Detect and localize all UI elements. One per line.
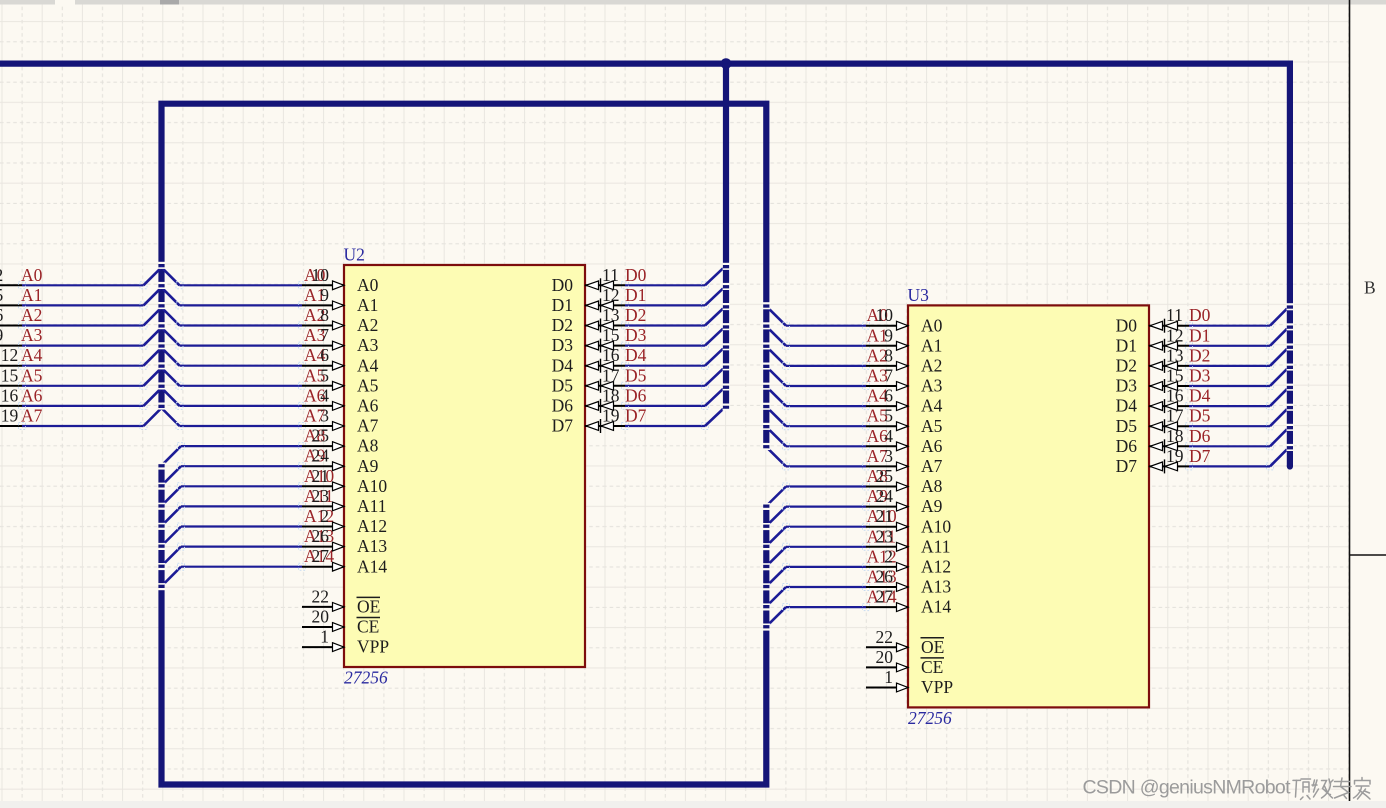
wire net D2: U2 pin to bus entry bbox=[622, 322, 709, 329]
bus entry net A2 at right address bus bbox=[768, 348, 786, 366]
svg-text:17: 17 bbox=[1166, 406, 1184, 426]
U3 pin 27 A14 bbox=[866, 587, 951, 617]
svg-text:17: 17 bbox=[602, 365, 620, 385]
svg-text:D0: D0 bbox=[1189, 305, 1211, 325]
bus entry net A1 at right address bus bbox=[768, 328, 786, 346]
svg-text:A1: A1 bbox=[921, 335, 942, 355]
wire net D3: U2 pin to bus entry bbox=[622, 342, 709, 349]
svg-text:20: 20 bbox=[312, 607, 330, 627]
bus entry net D2 at U2 data bus bbox=[705, 309, 723, 326]
bus entry net A7 at right address bus bbox=[768, 448, 786, 466]
wire net A3: stub to bus entry bbox=[19, 342, 148, 349]
svg-text:A11: A11 bbox=[357, 496, 387, 516]
svg-text:A1: A1 bbox=[21, 285, 42, 305]
svg-text:23: 23 bbox=[312, 486, 330, 506]
bus entry net A14 at left address bus bbox=[163, 567, 181, 585]
svg-text:18: 18 bbox=[602, 385, 620, 405]
svg-text:7: 7 bbox=[884, 366, 893, 386]
svg-text:1: 1 bbox=[320, 627, 329, 647]
bus: top horizontal data bus with right vertical drop bbox=[0, 64, 1290, 467]
wire net A3: bus to U3 pin bbox=[783, 383, 870, 390]
svg-text:A0: A0 bbox=[357, 275, 379, 295]
svg-text:A10: A10 bbox=[921, 516, 951, 536]
svg-text:15: 15 bbox=[1166, 366, 1184, 386]
U3 pin 11 D0 bbox=[1116, 305, 1189, 335]
svg-text:16: 16 bbox=[1, 385, 19, 405]
junction: data bus junction at top bus bbox=[721, 58, 732, 69]
U3 pin 20 CE bbox=[866, 647, 944, 677]
bus entry net A13 at left address bus bbox=[163, 547, 181, 565]
svg-text:5: 5 bbox=[884, 406, 893, 426]
svg-text:26: 26 bbox=[876, 567, 894, 587]
svg-text:D5: D5 bbox=[625, 365, 647, 385]
svg-text:5: 5 bbox=[0, 285, 3, 305]
svg-text:D5: D5 bbox=[1116, 416, 1138, 436]
U2 pin 1 VPP bbox=[302, 627, 389, 657]
bus entry net D3 at U2 data bus bbox=[705, 329, 723, 346]
svg-text:A13: A13 bbox=[357, 536, 387, 556]
bus entry net A3 at right address bus bbox=[768, 368, 786, 386]
bus entry net A0 at right address bus bbox=[768, 308, 786, 326]
wire net D4: U2 pin to bus entry bbox=[622, 362, 709, 369]
U3 pin 19 D7 bbox=[1116, 446, 1189, 476]
svg-text:D1: D1 bbox=[552, 295, 573, 315]
svg-text:D6: D6 bbox=[1189, 426, 1211, 446]
wire net D1: U2 pin to bus entry bbox=[622, 302, 709, 309]
svg-text:5: 5 bbox=[320, 365, 329, 385]
svg-text:A7: A7 bbox=[357, 416, 379, 436]
U2 pin 24 A9 bbox=[302, 446, 379, 476]
svg-text:19: 19 bbox=[1, 406, 19, 426]
svg-text:D2: D2 bbox=[552, 315, 573, 335]
bus entry chevron net A5 at left address bus bbox=[144, 368, 180, 386]
svg-text:A14: A14 bbox=[357, 556, 387, 576]
svg-text:VPP: VPP bbox=[357, 637, 389, 657]
svg-text:D5: D5 bbox=[1189, 406, 1211, 426]
bus entry net D1 at U2 data bus bbox=[705, 288, 723, 305]
U3 pin 4 A6 bbox=[866, 426, 943, 456]
U3 pin 26 A13 bbox=[866, 567, 951, 597]
svg-text:CSDN @geniusNMRobot: CSDN @geniusNMRobot bbox=[1083, 777, 1292, 799]
U2 pin 25 A8 bbox=[302, 426, 379, 456]
bus entry chevron net A4 at left address bus bbox=[144, 348, 180, 366]
U2 pin 27 A14 bbox=[302, 546, 387, 576]
wire net A6: stub to bus entry bbox=[19, 402, 148, 409]
svg-text:A6: A6 bbox=[921, 436, 943, 456]
IC U3 27256 EPROM body bbox=[908, 305, 1149, 707]
IC U2 27256 EPROM body bbox=[344, 265, 585, 667]
svg-text:D3: D3 bbox=[1189, 366, 1211, 386]
bus entry net D4 at U2 data bus bbox=[705, 349, 723, 366]
U3 pin 24 A9 bbox=[866, 486, 943, 516]
svg-text:27: 27 bbox=[876, 587, 894, 607]
wire net A5: bus to U2 pin bbox=[176, 382, 306, 389]
svg-text:CE: CE bbox=[921, 657, 943, 677]
pin 5 of off-sheet IC, net A1 bbox=[0, 285, 22, 306]
svg-text:12: 12 bbox=[1166, 325, 1184, 345]
wire net A4: stub to bus entry bbox=[19, 362, 148, 369]
svg-text:A9: A9 bbox=[357, 456, 379, 476]
bus entry net A9 at left address bus bbox=[163, 466, 181, 484]
bus entry net D7 at U2 data bus bbox=[705, 409, 723, 426]
bus entry chevron net A2 at left address bus bbox=[144, 308, 180, 326]
wire net A11: bus to U2 pin bbox=[178, 503, 306, 510]
wire net A7: bus to U3 pin bbox=[783, 463, 870, 470]
svg-text:VPP: VPP bbox=[921, 677, 953, 697]
svg-text:8: 8 bbox=[884, 345, 893, 365]
U3 pin 18 D6 bbox=[1116, 426, 1189, 456]
U3 pin 8 A2 bbox=[866, 345, 942, 375]
svg-text:D4: D4 bbox=[552, 355, 574, 375]
wire net D0: U3 pin to bus entry bbox=[1186, 322, 1274, 329]
U3 pin 15 D3 bbox=[1116, 366, 1189, 396]
wire net A13: bus to U2 pin bbox=[178, 543, 306, 550]
wire net A8: bus to U2 pin bbox=[178, 443, 306, 450]
U3 pin 16 D4 bbox=[1116, 386, 1189, 416]
wire net A6: bus to U2 pin bbox=[176, 402, 306, 409]
wire net A6: bus to U3 pin bbox=[783, 443, 870, 450]
U2 pin 21 A10 bbox=[302, 466, 387, 496]
U3 pin 5 A5 bbox=[866, 406, 943, 436]
wire net D6: U3 pin to bus entry bbox=[1186, 443, 1274, 450]
svg-text:D4: D4 bbox=[1116, 396, 1138, 416]
svg-text:2: 2 bbox=[0, 265, 3, 285]
svg-text:21: 21 bbox=[876, 506, 894, 526]
svg-text:19: 19 bbox=[1166, 446, 1184, 466]
svg-text:A7: A7 bbox=[21, 406, 43, 426]
wire net D7: U3 pin to bus entry bbox=[1186, 463, 1274, 470]
svg-text:A4: A4 bbox=[21, 345, 43, 365]
svg-text:22: 22 bbox=[876, 627, 894, 647]
svg-text:10: 10 bbox=[876, 305, 894, 325]
wire net A3: bus to U2 pin bbox=[176, 342, 306, 349]
bus entry net A14 at right address bus bbox=[768, 607, 786, 625]
svg-text:D0: D0 bbox=[1116, 315, 1138, 335]
svg-text:12: 12 bbox=[602, 285, 620, 305]
bus entry gap markers bbox=[158, 262, 1294, 631]
bus entry net A10 at right address bus bbox=[768, 527, 786, 545]
svg-text:D7: D7 bbox=[1189, 446, 1211, 466]
svg-text:24: 24 bbox=[312, 446, 330, 466]
svg-text:A12: A12 bbox=[304, 506, 334, 526]
svg-text:D0: D0 bbox=[552, 275, 574, 295]
svg-text:U2: U2 bbox=[344, 245, 365, 265]
svg-text:27256: 27256 bbox=[908, 708, 952, 728]
svg-text:D2: D2 bbox=[625, 305, 646, 325]
U3 pin 23 A11 bbox=[866, 526, 951, 556]
svg-text:B: B bbox=[1364, 278, 1376, 298]
svg-text:24: 24 bbox=[876, 486, 894, 506]
wire net D5: U2 pin to bus entry bbox=[622, 382, 709, 389]
U3 pin 17 D5 bbox=[1116, 406, 1189, 436]
wire net A10: bus to U3 pin bbox=[783, 523, 870, 530]
bus entry net D3 at right data bus bbox=[1270, 369, 1287, 386]
U2 pin 3 A7 bbox=[302, 406, 379, 436]
pin 16 of off-sheet IC, net A6 bbox=[0, 385, 22, 406]
svg-text:A3: A3 bbox=[357, 335, 379, 355]
U2 pin 9 A1 bbox=[302, 285, 378, 315]
wire net A12: bus to U2 pin bbox=[178, 523, 306, 530]
svg-text:27256: 27256 bbox=[344, 668, 388, 688]
bus entry net A12 at left address bus bbox=[163, 527, 181, 545]
U2 pin 17 D5 bbox=[552, 365, 625, 395]
svg-text:4: 4 bbox=[320, 385, 329, 405]
svg-text:15: 15 bbox=[1, 365, 19, 385]
wire net A2: bus to U2 pin bbox=[176, 322, 306, 329]
U2 pin 26 A13 bbox=[302, 526, 387, 556]
svg-text:23: 23 bbox=[876, 526, 894, 546]
wire net D3: U3 pin to bus entry bbox=[1186, 383, 1274, 390]
svg-text:6: 6 bbox=[320, 345, 329, 365]
U2 pin 2 A12 bbox=[302, 506, 387, 536]
svg-text:A11: A11 bbox=[921, 536, 951, 556]
svg-text:D6: D6 bbox=[1116, 436, 1138, 456]
svg-text:D5: D5 bbox=[552, 375, 574, 395]
svg-text:A1: A1 bbox=[357, 295, 378, 315]
wire net A0: bus to U2 pin bbox=[176, 282, 306, 289]
pin 12 of off-sheet IC, net A4 bbox=[0, 345, 22, 366]
svg-text:D6: D6 bbox=[625, 385, 647, 405]
svg-text:A5: A5 bbox=[921, 416, 943, 436]
svg-text:9: 9 bbox=[320, 285, 329, 305]
wire net A5: stub to bus entry bbox=[19, 382, 148, 389]
U2 pin 15 D3 bbox=[552, 325, 625, 355]
bus entry chevron net A1 at left address bus bbox=[144, 287, 180, 305]
svg-text:19: 19 bbox=[602, 406, 620, 426]
svg-text:13: 13 bbox=[1166, 345, 1184, 365]
svg-text:A5: A5 bbox=[357, 375, 379, 395]
bus entry net D6 at right data bus bbox=[1270, 429, 1287, 446]
svg-text:D3: D3 bbox=[552, 335, 574, 355]
bus entry net A5 at right address bus bbox=[768, 408, 786, 426]
U2 pin 10 A0 bbox=[302, 265, 379, 295]
svg-text:22: 22 bbox=[312, 586, 330, 606]
U3 pin 3 A7 bbox=[866, 446, 943, 476]
svg-text:D1: D1 bbox=[625, 285, 646, 305]
bus entry net A8 at right address bus bbox=[768, 487, 786, 505]
wire net A2: bus to U3 pin bbox=[783, 362, 870, 369]
svg-text:D7: D7 bbox=[625, 406, 647, 426]
svg-text:A12: A12 bbox=[357, 516, 387, 536]
svg-text:12: 12 bbox=[1, 345, 19, 365]
U3 pin 2 A12 bbox=[866, 546, 951, 576]
U2 pin 5 A5 bbox=[302, 365, 379, 395]
bus entry net A10 at left address bus bbox=[163, 486, 181, 504]
U3 pin 10 A0 bbox=[866, 305, 943, 335]
bus entry net D0 at right data bus bbox=[1270, 309, 1287, 326]
svg-text:D4: D4 bbox=[1189, 386, 1211, 406]
svg-text:A2: A2 bbox=[357, 315, 378, 335]
U3 pin 7 A3 bbox=[866, 366, 943, 396]
svg-text:18: 18 bbox=[1166, 426, 1184, 446]
svg-text:3: 3 bbox=[320, 406, 329, 426]
svg-text:D2: D2 bbox=[1189, 345, 1210, 365]
U2 pin 23 A11 bbox=[302, 486, 387, 516]
svg-text:A2: A2 bbox=[921, 356, 942, 376]
svg-text:D7: D7 bbox=[1116, 456, 1138, 476]
wire net A7: stub to bus entry bbox=[19, 423, 148, 430]
U2 pin 12 D1 bbox=[552, 285, 625, 315]
U2 pin 18 D6 bbox=[552, 385, 625, 415]
svg-text:6: 6 bbox=[884, 386, 893, 406]
wire net A1: stub to bus entry bbox=[19, 302, 148, 309]
U3 pin 25 A8 bbox=[866, 466, 943, 496]
bus entry chevron net A3 at left address bus bbox=[144, 328, 180, 346]
wire net D1: U3 pin to bus entry bbox=[1186, 342, 1274, 349]
U2 pin 6 A4 bbox=[302, 345, 379, 375]
U2 pin 22 OE bbox=[302, 586, 380, 616]
bus entry chevron net A6 at left address bus bbox=[144, 388, 180, 406]
svg-text:A0: A0 bbox=[921, 315, 943, 335]
pin 2 of off-sheet IC, net A0 bbox=[0, 265, 22, 286]
svg-text:D4: D4 bbox=[625, 345, 647, 365]
svg-text:A9: A9 bbox=[921, 496, 943, 516]
wire net A13: bus to U3 pin bbox=[783, 584, 870, 591]
svg-text:2: 2 bbox=[320, 506, 329, 526]
U3 pin 12 D1 bbox=[1116, 325, 1189, 355]
bus entry net A4 at right address bus bbox=[768, 388, 786, 406]
bus entry chevron net A0 at left address bus bbox=[144, 267, 180, 285]
U3 pin 13 D2 bbox=[1116, 345, 1189, 375]
svg-text:A13: A13 bbox=[921, 577, 951, 597]
bus entry net A11 at right address bus bbox=[768, 547, 786, 565]
U2 pin 20 CE bbox=[302, 607, 380, 637]
svg-text:CE: CE bbox=[357, 617, 379, 637]
wire net D0: U2 pin to bus entry bbox=[622, 282, 709, 289]
bus entry net D7 at right data bus bbox=[1270, 449, 1287, 466]
svg-text:25: 25 bbox=[312, 426, 330, 446]
U2 pin 7 A3 bbox=[302, 325, 379, 355]
pin 6 of off-sheet IC, net A2 bbox=[0, 305, 22, 326]
bus: address bus loop upper part (left drop, top run, right drop) bbox=[162, 104, 767, 449]
U3 pin 1 VPP bbox=[866, 667, 953, 697]
svg-text:25: 25 bbox=[876, 466, 894, 486]
bus entry net A9 at right address bus bbox=[768, 507, 786, 525]
svg-text:8: 8 bbox=[320, 305, 329, 325]
bus entry net D2 at right data bus bbox=[1270, 349, 1287, 366]
wire net A0: bus to U3 pin bbox=[783, 322, 870, 329]
svg-text:15: 15 bbox=[602, 325, 620, 345]
svg-text:20: 20 bbox=[876, 647, 894, 667]
bus: address bus loop lower part (left drop, bottom run, right rise) bbox=[162, 464, 767, 784]
svg-text:A4: A4 bbox=[357, 355, 379, 375]
svg-text:16: 16 bbox=[602, 345, 620, 365]
bus entry net A13 at right address bus bbox=[768, 587, 786, 605]
svg-text:D6: D6 bbox=[552, 396, 574, 416]
bus entry net D4 at right data bus bbox=[1270, 389, 1287, 406]
svg-text:2: 2 bbox=[884, 546, 893, 566]
bus entry chevron net A7 at left address bus bbox=[144, 408, 180, 426]
svg-text:A12: A12 bbox=[921, 557, 951, 577]
svg-text:4: 4 bbox=[884, 426, 893, 446]
U2 pin 4 A6 bbox=[302, 385, 379, 415]
U3 pin 6 A4 bbox=[866, 386, 943, 416]
bus: U2 data bus vertical segment bbox=[723, 64, 729, 409]
wire net A2: stub to bus entry bbox=[19, 322, 148, 329]
wire net A0: stub to bus entry bbox=[19, 282, 148, 289]
svg-text:16: 16 bbox=[1166, 386, 1184, 406]
svg-text:A0: A0 bbox=[21, 265, 43, 285]
svg-text:13: 13 bbox=[602, 305, 620, 325]
pin 19 of off-sheet IC, net A7 bbox=[0, 406, 22, 427]
wire net A9: bus to U2 pin bbox=[178, 463, 306, 470]
svg-text:A8: A8 bbox=[357, 436, 379, 456]
wire net D5: U3 pin to bus entry bbox=[1186, 423, 1274, 430]
bus entry net D1 at right data bus bbox=[1270, 329, 1287, 346]
wire net A14: bus to U2 pin bbox=[178, 563, 306, 570]
svg-text:11: 11 bbox=[1166, 305, 1183, 325]
wire net A9: bus to U3 pin bbox=[783, 503, 870, 510]
svg-text:A3: A3 bbox=[21, 325, 43, 345]
svg-text:1: 1 bbox=[884, 667, 893, 687]
wire net A5: bus to U3 pin bbox=[783, 423, 870, 430]
wire net D7: U2 pin to bus entry bbox=[622, 423, 709, 430]
pin 9 of off-sheet IC, net A3 bbox=[0, 325, 22, 346]
svg-text:21: 21 bbox=[312, 466, 330, 486]
svg-text:A8: A8 bbox=[921, 476, 943, 496]
U2 pin 11 D0 bbox=[552, 265, 625, 295]
svg-text:A5: A5 bbox=[21, 365, 43, 385]
U2 pin 16 D4 bbox=[552, 345, 625, 375]
svg-text:3: 3 bbox=[884, 446, 893, 466]
svg-text:D3: D3 bbox=[625, 325, 647, 345]
svg-text:A6: A6 bbox=[21, 385, 43, 405]
svg-text:26: 26 bbox=[312, 526, 330, 546]
U3 pin 21 A10 bbox=[866, 506, 951, 536]
wire net A10: bus to U2 pin bbox=[178, 483, 306, 490]
U2 pin 19 D7 bbox=[552, 406, 625, 436]
wire net D4: U3 pin to bus entry bbox=[1186, 403, 1274, 410]
svg-text:A2: A2 bbox=[21, 305, 42, 325]
svg-text:D0: D0 bbox=[625, 265, 647, 285]
svg-text:A10: A10 bbox=[357, 476, 387, 496]
bus entry net A6 at right address bus bbox=[768, 428, 786, 446]
wire net A11: bus to U3 pin bbox=[783, 543, 870, 550]
wire net D6: U2 pin to bus entry bbox=[622, 402, 709, 409]
svg-text:A7: A7 bbox=[921, 456, 943, 476]
wire net A8: bus to U3 pin bbox=[783, 483, 870, 490]
svg-text:27: 27 bbox=[312, 546, 330, 566]
wire net D2: U3 pin to bus entry bbox=[1186, 362, 1274, 369]
wire net A1: bus to U3 pin bbox=[783, 342, 870, 349]
wire net A14: bus to U3 pin bbox=[783, 604, 870, 611]
svg-text:9: 9 bbox=[884, 325, 893, 345]
bus entry net A12 at right address bus bbox=[768, 567, 786, 585]
wire net A4: bus to U2 pin bbox=[176, 362, 306, 369]
svg-text:D1: D1 bbox=[1116, 335, 1137, 355]
wire net A4: bus to U3 pin bbox=[783, 403, 870, 410]
svg-text:D1: D1 bbox=[1189, 325, 1210, 345]
svg-text:OE: OE bbox=[921, 637, 944, 657]
svg-text:U3: U3 bbox=[908, 285, 930, 305]
svg-text:A3: A3 bbox=[921, 376, 943, 396]
bus entry net A11 at left address bus bbox=[163, 506, 181, 524]
svg-text:9: 9 bbox=[0, 325, 3, 345]
wire net A7: bus to U2 pin bbox=[176, 423, 306, 430]
svg-text:11: 11 bbox=[602, 265, 619, 285]
svg-text:7: 7 bbox=[320, 325, 329, 345]
bus entry net A8 at left address bus bbox=[163, 446, 181, 464]
U2 pin 13 D2 bbox=[552, 305, 625, 335]
pin 15 of off-sheet IC, net A5 bbox=[0, 365, 22, 386]
svg-text:D2: D2 bbox=[1116, 356, 1137, 376]
U3 pin 22 OE bbox=[866, 627, 944, 657]
wire net A1: bus to U2 pin bbox=[176, 302, 306, 309]
bus entry net D5 at U2 data bus bbox=[705, 369, 723, 386]
wire net A12: bus to U3 pin bbox=[783, 563, 870, 570]
bus entry net D6 at U2 data bus bbox=[705, 389, 723, 406]
svg-text:A14: A14 bbox=[921, 597, 951, 617]
